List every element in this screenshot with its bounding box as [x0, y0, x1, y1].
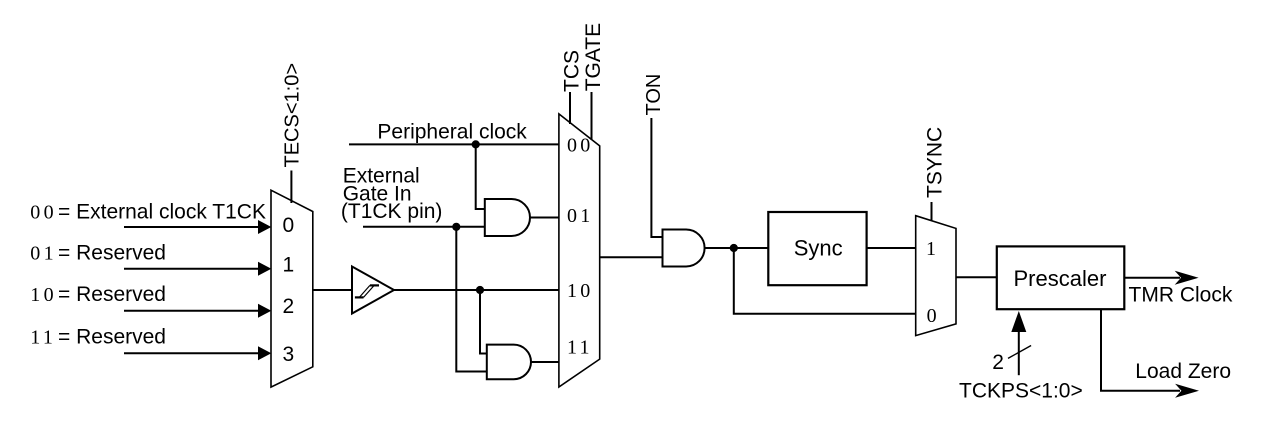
svg-text:0: 0: [283, 214, 295, 237]
AND gate G2: [487, 345, 531, 380]
svg-text:= Reserved: = Reserved: [58, 242, 166, 265]
Schmitt trigger buffer U2: [352, 267, 394, 314]
svg-text:Sync: Sync: [794, 236, 843, 261]
wire Prescaler output TMR Clock arrow: [1124, 271, 1198, 285]
svg-text:Prescaler: Prescaler: [1014, 266, 1107, 291]
svg-text:= Reserved: = Reserved: [58, 283, 166, 306]
wire arrow input 1 of mux U1: [124, 262, 271, 276]
wire Sync output to mux U4 input 1: [867, 247, 916, 249]
wire arrow input 3 of mux U1: [124, 346, 271, 360]
svg-text:01: 01: [567, 205, 594, 227]
svg-text:Load Zero: Load Zero: [1135, 360, 1231, 383]
wire TCS select into mux U3: [569, 92, 571, 124]
svg-text:Peripheral clock: Peripheral clock: [377, 121, 527, 144]
wire mux U3 output to AND gate G3 bottom input: [600, 256, 663, 258]
wire TON into AND gate G3 top input: [651, 118, 662, 237]
svg-text:1: 1: [283, 253, 295, 276]
wire mux U1 output to Schmitt buffer: [313, 289, 352, 291]
AND gate G1: [485, 199, 530, 236]
mux U4 TSYNC multiplexer: [916, 216, 956, 336]
node junction on peripheral clock line: [472, 140, 480, 148]
svg-text:0: 0: [927, 305, 937, 327]
label 00 = External clock T1CK: [30, 201, 266, 224]
svg-text:1: 1: [926, 238, 936, 260]
wire Load Zero from Prescaler bottom: [1101, 309, 1199, 398]
wire mux U4 output to Prescaler: [956, 276, 997, 278]
AND gate G3: [663, 230, 705, 267]
svg-text:01: 01: [30, 243, 57, 265]
wire arrow input 0 of mux U1: [124, 220, 271, 234]
svg-text:TCKPS<1:0>: TCKPS<1:0>: [959, 380, 1083, 403]
svg-text:= External clock T1CK: = External clock T1CK: [58, 201, 266, 224]
block Sync: [768, 212, 866, 285]
label External Gate In (T1CK pin): [341, 165, 443, 224]
wire TECS select into mux U1: [290, 171, 292, 204]
svg-text:TECS<1:0>: TECS<1:0>: [282, 63, 304, 168]
svg-text:TON: TON: [643, 74, 665, 116]
svg-text:10: 10: [567, 280, 594, 302]
wire TGATE select into mux U3: [591, 92, 593, 140]
wire AND gate G2 output to mux U3 input 11: [531, 361, 559, 363]
block Prescaler: [997, 246, 1125, 309]
mux U3 clock source multiplexer: [559, 114, 600, 387]
svg-text:3: 3: [283, 343, 295, 366]
wire Schmitt output to mux U3 input 10: [394, 289, 559, 291]
node junction on 10 line: [476, 286, 484, 294]
node junction on G3 output: [730, 244, 738, 252]
svg-text:2: 2: [283, 295, 295, 318]
svg-text:10: 10: [30, 284, 57, 306]
svg-text:2: 2: [992, 351, 1004, 374]
svg-text:00: 00: [567, 134, 594, 156]
wire External gate in to AND gate G1 bottom input: [363, 226, 485, 228]
label 11 = Reserved: [30, 325, 166, 348]
wire AND gate G1 output to mux U3 input 01: [530, 217, 559, 219]
svg-text:11: 11: [567, 336, 593, 358]
wire Peripheral clock to mux U3 input 00: [349, 143, 559, 145]
label 01 = Reserved: [30, 242, 166, 265]
wire bypass from junction to mux U4 input 0: [734, 248, 916, 314]
svg-text:(T1CK pin): (T1CK pin): [341, 200, 443, 223]
bus width slash 2: [992, 346, 1031, 375]
wire junction down to AND gate G1 top input: [476, 144, 485, 209]
svg-text:11: 11: [30, 326, 56, 348]
wire arrow input 2 of mux U1: [124, 304, 271, 318]
svg-text:TCS: TCS: [561, 50, 584, 92]
wire TCKPS bus arrow into Prescaler: [1011, 311, 1026, 375]
svg-text:TGATE: TGATE: [582, 23, 605, 91]
svg-text:= Reserved: = Reserved: [58, 325, 166, 348]
svg-text:TSYNC: TSYNC: [924, 127, 947, 198]
wire TSYNC select into mux U4: [931, 202, 933, 221]
wire junction down to AND gate G2 top input: [480, 290, 487, 354]
svg-text:00: 00: [30, 202, 57, 224]
wire AND gate G3 output to Sync block: [705, 247, 769, 249]
node junction on gate-in line: [452, 223, 460, 231]
label 10 = Reserved: [30, 283, 166, 306]
wire junction down to AND gate G2 bottom input: [456, 227, 487, 372]
svg-text:TMR Clock: TMR Clock: [1129, 284, 1233, 307]
mux U1 TECS input multiplexer: [271, 190, 313, 387]
